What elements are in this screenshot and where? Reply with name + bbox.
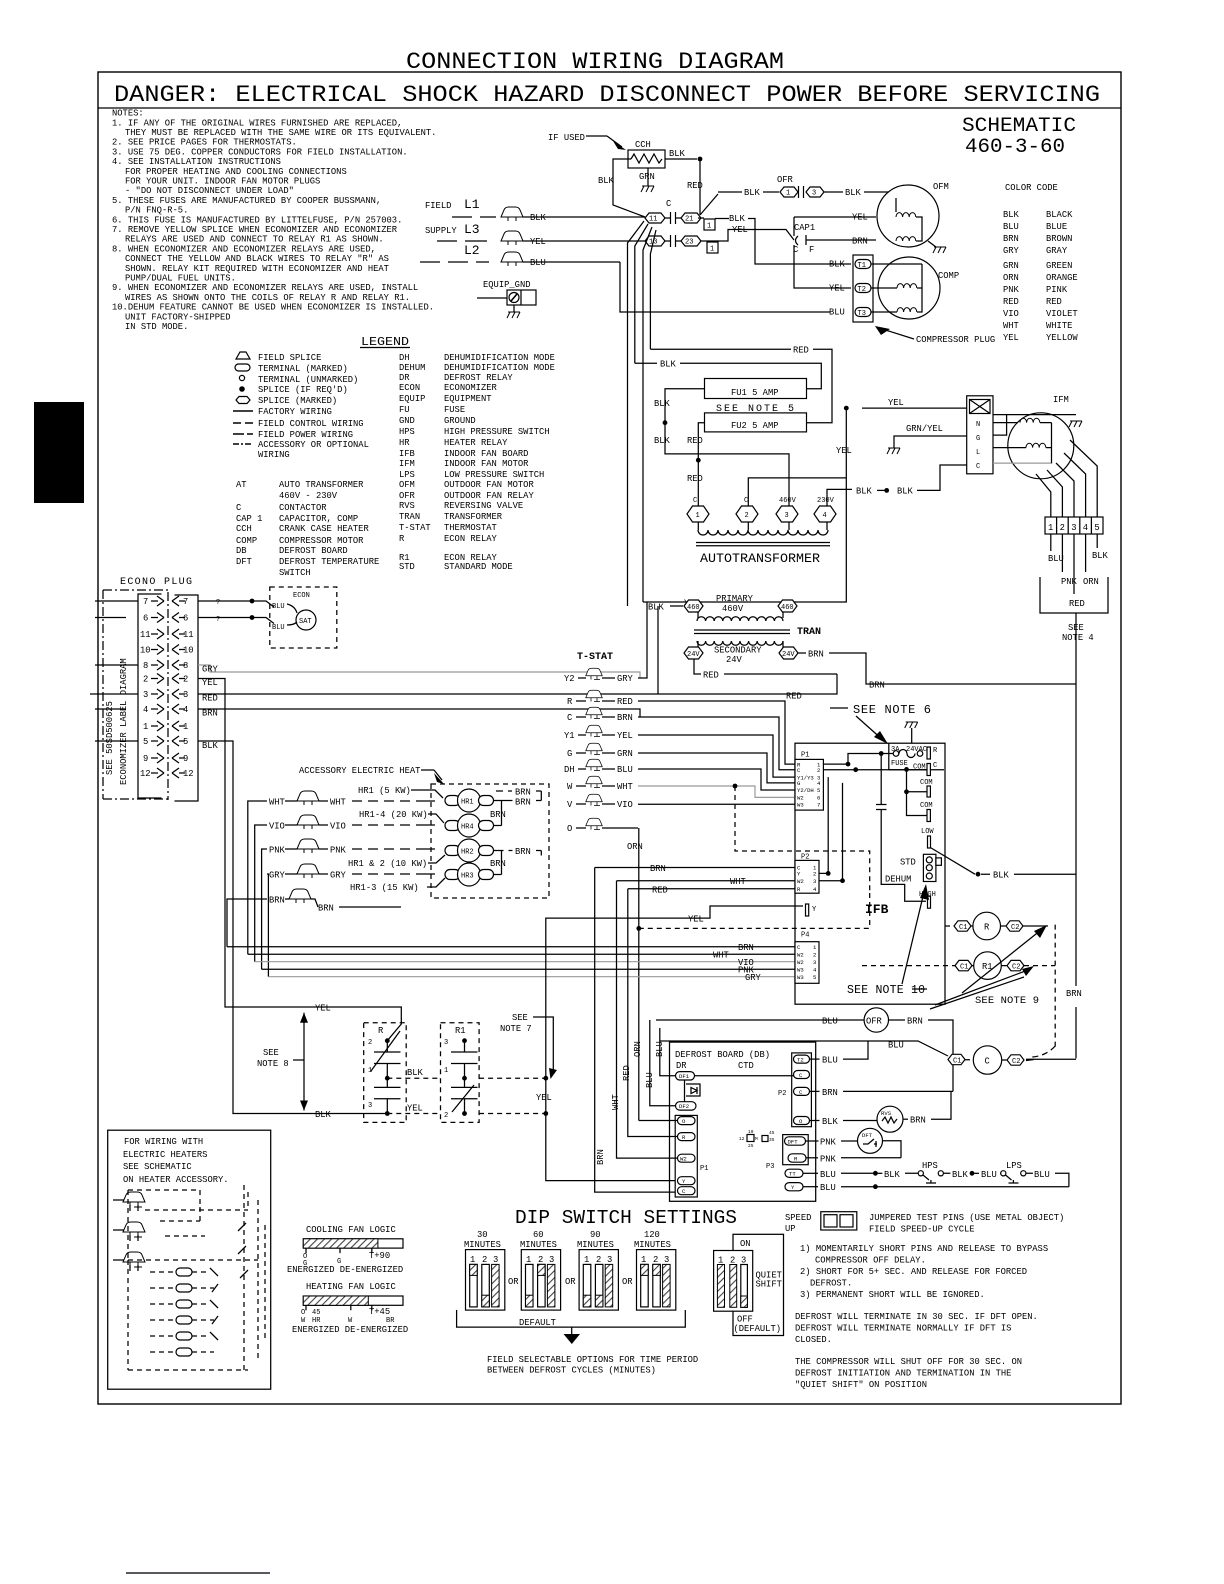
svg-text:1: 1 [786, 190, 790, 198]
svg-text:BLU: BLU [822, 1056, 838, 1066]
svg-text:C: C [933, 762, 937, 770]
svg-text:BLK: BLK [315, 1110, 332, 1120]
svg-text:BRN: BRN [1066, 989, 1082, 999]
wire WHT into P1-3 [617, 881, 678, 1158]
svg-text:T2: T2 [858, 286, 866, 294]
legend symbol: terminal unmarked [239, 375, 244, 380]
svg-text:45: 45 [312, 1309, 320, 1317]
wire CCH right leg BLK [665, 158, 697, 160]
svg-text:1: 1 [710, 246, 714, 254]
legend symbol: factory wiring [233, 410, 253, 412]
svg-text:CRANK CASE HEATER: CRANK CASE HEATER [279, 524, 369, 534]
svg-text:W2: W2 [680, 1156, 687, 1163]
svg-text:5: 5 [813, 974, 816, 981]
svg-text:IFB: IFB [865, 902, 889, 917]
svg-text:4. SEE INSTALLATION INSTRUCTIO: 4. SEE INSTALLATION INSTRUCTIONS [112, 157, 281, 167]
svg-text:AUTO TRANSFORMER: AUTO TRANSFORMER [279, 480, 364, 490]
svg-text:COMPRESSOR MOTOR: COMPRESSOR MOTOR [279, 536, 364, 546]
svg-text:1: 1 [584, 1255, 589, 1265]
svg-text:COMP: COMP [938, 271, 959, 281]
svg-text:PRIMARY: PRIMARY [716, 594, 754, 604]
svg-text:RED: RED [1046, 297, 1062, 307]
svg-text:C: C [666, 199, 671, 209]
svg-text:BLUE: BLUE [1046, 222, 1067, 232]
svg-text:4: 4 [823, 512, 827, 520]
svg-text:MINUTES: MINUTES [464, 1240, 501, 1250]
border frame [98, 72, 1121, 1404]
svg-text:FU: FU [399, 405, 410, 415]
svg-text:W2: W2 [797, 959, 804, 966]
wire WHT tstat to P1 [638, 786, 795, 797]
svg-text:1: 1 [1048, 523, 1053, 533]
instructions [795, 1244, 1048, 1390]
wire YEL up to Y slot [546, 906, 803, 1078]
svg-text:6: 6 [143, 614, 148, 624]
svg-text:2: 2 [596, 1255, 601, 1265]
svg-text:SPEED: SPEED [785, 1213, 811, 1223]
svg-text:11: 11 [649, 216, 657, 224]
t-stat left dashes [576, 678, 586, 828]
wire BLK to RVS [810, 1120, 820, 1122]
svg-text:1: 1 [526, 1255, 531, 1265]
svg-text:GRY: GRY [330, 871, 347, 881]
svg-text:FIELD SPEED-UP CYCLE: FIELD SPEED-UP CYCLE [869, 1225, 975, 1235]
svg-text:BLU: BLU [1003, 222, 1019, 232]
svg-text:R: R [399, 534, 405, 544]
svg-text:OUTDOOR FAN RELAY: OUTDOOR FAN RELAY [444, 491, 534, 501]
svg-text:1: 1 [707, 223, 711, 231]
svg-text:HR3: HR3 [461, 873, 474, 881]
svg-text:Y2/DH: Y2/DH [797, 787, 814, 794]
wire RED from 24V [694, 659, 701, 674]
wire ORN into P1-1 [639, 1120, 678, 1122]
svg-text:BLK: BLK [1003, 210, 1020, 220]
svg-text:ECON RELAY: ECON RELAY [444, 534, 498, 544]
Y slot [806, 904, 809, 916]
svg-text:FUSE: FUSE [444, 405, 465, 415]
svg-text:DEFROST BOARD: DEFROST BOARD [279, 546, 348, 556]
svg-text:DEHUM: DEHUM [885, 875, 911, 885]
wire FU2 left to autotransformer tap 1 [698, 423, 704, 506]
svg-text:460: 460 [781, 604, 794, 612]
TT stadium [785, 1169, 803, 1177]
wire RED tstat to P1 [638, 701, 795, 764]
svg-text:IF USED: IF USED [548, 133, 585, 143]
svg-text:REVERSING VALVE: REVERSING VALVE [444, 501, 523, 511]
IFB fuse 3A 24VAC [905, 722, 918, 728]
svg-text:ON: ON [740, 1239, 751, 1249]
svg-text:ECON: ECON [293, 592, 310, 600]
svg-text:DF2: DF2 [679, 1103, 689, 1110]
svg-text:RED: RED [622, 1065, 632, 1081]
svg-text:Y2: Y2 [564, 674, 575, 684]
svg-text:HEATER RELAY: HEATER RELAY [444, 438, 508, 448]
svg-text:RVS: RVS [399, 501, 415, 511]
terminal 1 square row2 [707, 242, 718, 253]
wire C pin to COM C [823, 769, 927, 771]
svg-text:BLK: BLK [654, 399, 671, 409]
wire ORN from O down [638, 828, 640, 1121]
svg-text:HR: HR [312, 1317, 321, 1325]
svg-text:R: R [567, 697, 573, 707]
svg-text:TT: TT [789, 1171, 796, 1178]
svg-text:T-STAT: T-STAT [399, 523, 431, 533]
svg-text:BLK: BLK [845, 188, 862, 198]
wire YEL riser [643, 408, 846, 602]
svg-text:BRN: BRN [910, 1116, 926, 1126]
wire RED riser [657, 606, 659, 694]
defrost relay diode [685, 1080, 701, 1102]
svg-text:DEFROST RELAY: DEFROST RELAY [444, 373, 513, 383]
svg-text:3: 3 [1071, 523, 1076, 533]
bottom page mark [126, 1572, 270, 1574]
svg-text:T1: T1 [858, 262, 866, 270]
svg-text:3: 3 [813, 959, 816, 966]
svg-text:2: 2 [1060, 523, 1065, 533]
svg-text:24VAC: 24VAC [906, 746, 927, 754]
compressor plug box [853, 255, 873, 322]
svg-text:BRN: BRN [490, 810, 506, 820]
svg-text:ORN: ORN [1003, 273, 1019, 283]
svg-text:DEFROST TEMPERATURE: DEFROST TEMPERATURE [279, 557, 379, 567]
svg-text:BRN: BRN [617, 713, 633, 723]
svg-text:BRN: BRN [269, 896, 285, 906]
svg-text:M: M [755, 1136, 758, 1142]
svg-text:BRN: BRN [869, 681, 885, 691]
t-stat splice bells [586, 668, 603, 679]
svg-text:PNK: PNK [820, 1154, 837, 1164]
svg-text:OFM: OFM [933, 182, 949, 192]
outdoor fan relay OFR coil [656, 1019, 864, 1021]
svg-text:DH: DH [564, 765, 575, 775]
svg-text:DF1: DF1 [679, 1073, 690, 1080]
wire YEL to OFM [794, 217, 876, 236]
svg-text:9: 9 [143, 754, 148, 764]
svg-text:BLK: BLK [654, 436, 671, 446]
svg-text:BRN: BRN [490, 859, 506, 869]
svg-text:BRN: BRN [822, 1088, 838, 1098]
svg-text:SECONDARY: SECONDARY [714, 646, 762, 656]
svg-text:OFR: OFR [777, 175, 794, 185]
svg-text:BLU: BLU [655, 1041, 665, 1057]
svg-text:LPS: LPS [399, 470, 415, 480]
fuse FU2 5 AMP [705, 413, 807, 432]
wire BLU to compressor T3 [620, 262, 830, 312]
plug center dash line [167, 592, 169, 800]
svg-text:FOR WIRING WITH: FOR WIRING WITH [124, 1137, 203, 1147]
wire PNK from DFT pin [806, 1140, 819, 1142]
svg-text:HPS: HPS [922, 1161, 938, 1171]
svg-text:RED: RED [703, 671, 719, 681]
svg-text:SAT: SAT [299, 618, 312, 626]
svg-text:7: 7 [143, 597, 148, 607]
wire RED to FU2 [650, 348, 791, 350]
svg-text:GRY: GRY [202, 665, 219, 675]
svg-text:DEFROST INITIATION AND TERMINA: DEFROST INITIATION AND TERMINATION IN TH… [795, 1369, 1011, 1379]
svg-text:1: 1 [470, 1255, 475, 1265]
IFM leads to connector [1036, 440, 1097, 517]
wire FU1 left to autotransformer 460V tap [665, 389, 789, 506]
svg-text:NOTE 8: NOTE 8 [257, 1059, 289, 1069]
svg-text:COMPRESSOR OFF DELAY.: COMPRESSOR OFF DELAY. [815, 1256, 926, 1266]
svg-text:3: 3 [368, 1102, 372, 1110]
svg-text:BLK: BLK [897, 487, 914, 497]
svg-text:BLU: BLU [272, 603, 285, 611]
svg-text:VIO: VIO [617, 800, 633, 810]
svg-text:TRAN: TRAN [399, 512, 420, 522]
svg-text:L: L [976, 449, 980, 457]
svg-text:CLOSED.: CLOSED. [795, 1335, 832, 1345]
legend symbol: splice if reqd [239, 386, 245, 392]
svg-text:RVS: RVS [881, 1110, 892, 1117]
wire RED econo to IFB region [198, 674, 837, 694]
svg-text:BRN: BRN [852, 237, 868, 247]
svg-text:INDOOR FAN BOARD: INDOOR FAN BOARD [444, 449, 528, 459]
wire YEL below R [387, 1113, 440, 1115]
svg-text:C: C [976, 463, 980, 471]
heater accessory note box [108, 1130, 271, 1389]
wire COM2 [907, 769, 928, 791]
svg-text:1: 1 [718, 1256, 723, 1266]
svg-text:C2: C2 [1012, 1058, 1020, 1066]
svg-text:90: 90 [590, 1230, 601, 1240]
svg-text:DFT: DFT [862, 1132, 873, 1139]
BRN right vertical [1075, 613, 1077, 1058]
svg-text:PINK: PINK [1046, 285, 1068, 295]
dashed DEHUM wire from W [735, 786, 870, 893]
econo plug right column [175, 595, 199, 801]
svg-text:DEFROST.: DEFROST. [810, 1279, 852, 1289]
wire YEL tstat to P1 [638, 735, 795, 777]
svg-text:YEL: YEL [836, 446, 852, 456]
wire YEL into NGLC [862, 407, 967, 409]
svg-text:ENERGIZED DE-ENERGIZED: ENERGIZED DE-ENERGIZED [287, 1265, 403, 1275]
svg-text:7: 7 [817, 802, 820, 809]
svg-text:ECON: ECON [399, 383, 420, 393]
svg-text:C: C [985, 1057, 990, 1067]
plug pin rows [140, 597, 194, 779]
svg-text:C: C [744, 497, 748, 505]
svg-text:W3: W3 [797, 974, 804, 981]
svg-text:C: C [567, 713, 572, 723]
svg-text:3) PERMANENT SHORT WILL BE IGN: 3) PERMANENT SHORT WILL BE IGNORED. [800, 1290, 985, 1300]
svg-text:O: O [567, 824, 572, 834]
svg-text:BLK: BLK [669, 149, 686, 159]
svg-text:FIELD CONTROL WIRING: FIELD CONTROL WIRING [258, 419, 364, 429]
svg-text:PNK: PNK [269, 846, 286, 856]
svg-text:NOTE 4: NOTE 4 [1062, 633, 1094, 643]
svg-text:W2: W2 [797, 951, 804, 958]
svg-text:VIO: VIO [330, 822, 346, 832]
relay R coil box [364, 1023, 407, 1123]
accessory heat dashed box [431, 784, 549, 898]
svg-text:3: 3 [813, 878, 816, 885]
svg-text:OFR: OFR [866, 1017, 883, 1027]
svg-text:NOTES:: NOTES: [112, 109, 144, 119]
svg-text:2) SHORT FOR 5+ SEC. AND RELEA: 2) SHORT FOR 5+ SEC. AND RELEASE FOR FOR… [800, 1267, 1027, 1277]
svg-text:R: R [378, 1026, 384, 1036]
svg-text:2: 2 [368, 1039, 372, 1047]
svg-text:FOR PROPER HEATING AND COOLING: FOR PROPER HEATING AND COOLING CONNECTIO… [125, 167, 347, 177]
svg-text:12: 12 [140, 769, 151, 779]
wire cap to T2 [794, 245, 851, 288]
svg-text:120: 120 [644, 1230, 660, 1240]
legend symbol: field control wiring [233, 422, 253, 424]
svg-text:GND: GND [399, 416, 415, 426]
svg-text:BRN: BRN [738, 943, 754, 953]
svg-text:DEFROST WILL TERMINATE IN 30 S: DEFROST WILL TERMINATE IN 30 SEC. IF DFT… [795, 1312, 1038, 1322]
svg-text:35: 35 [769, 1137, 775, 1143]
legend symbol: field power wiring [233, 433, 253, 435]
svg-text:BLU: BLU [645, 1072, 655, 1088]
svg-text:BRN: BRN [515, 847, 531, 857]
R terminal slot [927, 747, 930, 759]
svg-text:BLK: BLK [1092, 551, 1109, 561]
svg-text:9. WHEN ECONOMIZER AND ECONOMI: 9. WHEN ECONOMIZER AND ECONOMIZER RELAYS… [112, 283, 418, 293]
econo plug dash-dot outline [103, 590, 168, 799]
svg-text:COM: COM [920, 802, 933, 810]
svg-text:BRN: BRN [515, 788, 531, 798]
svg-text:BLK: BLK [530, 213, 547, 223]
svg-text:25: 25 [748, 1143, 754, 1149]
svg-text:- "DO NOT DISCONNECT UNDER LOA: - "DO NOT DISCONNECT UNDER LOAD" [125, 186, 294, 196]
svg-text:2: 2 [813, 871, 816, 878]
svg-text:GRN: GRN [617, 749, 633, 759]
svg-text:HR1: HR1 [461, 799, 474, 807]
svg-text:ACCESSORY OR OPTIONAL: ACCESSORY OR OPTIONAL [258, 440, 369, 450]
svg-text:W: W [567, 782, 573, 792]
heater contact stadiums [150, 1268, 218, 1356]
svg-text:EQUIPMENT: EQUIPMENT [444, 394, 492, 404]
svg-text:10: 10 [140, 646, 151, 656]
svg-text:R1: R1 [455, 1026, 466, 1036]
svg-text:SEE: SEE [512, 1013, 528, 1023]
wire CCH left leg BLK [613, 159, 645, 217]
svg-text:11: 11 [183, 630, 194, 640]
svg-text:G: G [976, 435, 980, 443]
svg-text:GRY: GRY [617, 674, 634, 684]
svg-text:BLU: BLU [530, 258, 546, 268]
svg-text:BRN: BRN [808, 650, 824, 660]
svg-text:AUTOTRANSFORMER: AUTOTRANSFORMER [700, 551, 820, 566]
svg-text:WIRING: WIRING [258, 450, 290, 460]
svg-text:3: 3 [607, 1255, 612, 1265]
wire BRN tstat to P1 [638, 717, 795, 770]
quiet shift block [733, 1234, 784, 1335]
svg-text:C: C [693, 497, 697, 505]
svg-text:SEE NOTE 6: SEE NOTE 6 [853, 703, 931, 717]
svg-text:3: 3 [549, 1255, 554, 1265]
svg-text:P2: P2 [778, 1090, 786, 1098]
svg-text:10: 10 [748, 1129, 754, 1135]
svg-text:HR2: HR2 [461, 849, 474, 857]
svg-text:T+45: T+45 [369, 1307, 390, 1317]
svg-text:Y1: Y1 [564, 731, 575, 741]
indoor fan board IFB outline [795, 743, 945, 1004]
wire YEL row2 to CAP1 [701, 230, 794, 242]
svg-text:PNK: PNK [820, 1138, 837, 1148]
svg-text:HEATING FAN LOGIC: HEATING FAN LOGIC [306, 1282, 396, 1292]
svg-text:DR: DR [676, 1061, 687, 1071]
svg-text:C1: C1 [959, 924, 967, 932]
svg-text:ON HEATER ACCESSORY.: ON HEATER ACCESSORY. [123, 1175, 229, 1185]
SAT sensor [296, 610, 316, 630]
wire BLU tstat to P1 [638, 769, 795, 790]
svg-text:24V: 24V [782, 651, 795, 659]
svg-text:LOW PRESSURE SWITCH: LOW PRESSURE SWITCH [444, 470, 544, 480]
svg-text:FOR YOUR UNIT. INDOOR FAN MOTO: FOR YOUR UNIT. INDOOR FAN MOTOR PLUGS [125, 177, 320, 187]
svg-text:CCH: CCH [236, 524, 252, 534]
svg-text:OR: OR [565, 1277, 576, 1287]
svg-text:PUMP/DUAL FUEL UNITS.: PUMP/DUAL FUEL UNITS. [125, 274, 236, 284]
svg-text:T-STAT: T-STAT [577, 652, 613, 663]
svg-text:WHT: WHT [730, 877, 746, 887]
field splice L2 [501, 252, 523, 266]
svg-text:2: 2 [183, 675, 188, 685]
svg-text:RELAYS ARE USED AND CONNECT TO: RELAYS ARE USED AND CONNECT TO RELAY R1 … [125, 235, 384, 245]
svg-text:2: 2 [538, 1255, 543, 1265]
svg-text:ORN: ORN [627, 842, 643, 852]
svg-text:HIGH PRESSURE SWITCH: HIGH PRESSURE SWITCH [444, 427, 550, 437]
svg-text:BLK: BLK [822, 1117, 839, 1127]
svg-text:MINUTES: MINUTES [520, 1240, 557, 1250]
svg-text:DEHUMIDIFICATION MODE: DEHUMIDIFICATION MODE [444, 363, 555, 373]
svg-text:WHT: WHT [269, 798, 285, 808]
svg-text:RED: RED [786, 692, 802, 702]
svg-text:10: 10 [183, 646, 194, 656]
wire COM3 [907, 792, 928, 816]
relay C row C1 C C2 [948, 1054, 965, 1064]
svg-text:C2: C2 [1011, 924, 1019, 932]
legend symbol: terminal marked [235, 364, 250, 371]
svg-text:JUMPERED TEST PINS (USE METAL: JUMPERED TEST PINS (USE METAL OBJECT) [869, 1213, 1064, 1223]
svg-text:8: 8 [143, 661, 148, 671]
svg-text:"QUIET SHIFT" ON POSITION: "QUIET SHIFT" ON POSITION [795, 1380, 927, 1390]
wires into plug left [90, 601, 138, 741]
svg-text:5: 5 [183, 737, 188, 747]
svg-text:2: 2 [817, 767, 820, 774]
svg-text:HR1-3 (15 KW): HR1-3 (15 KW) [350, 883, 419, 893]
svg-text:5: 5 [817, 787, 820, 794]
dashed wire at 928 [636, 926, 641, 931]
svg-text:3: 3 [493, 1255, 498, 1265]
svg-text:DEFROST BOARD (DB): DEFROST BOARD (DB) [675, 1050, 770, 1060]
svg-text:V: V [567, 800, 573, 810]
svg-text:YEL: YEL [852, 213, 868, 223]
IFM connector leads [1051, 534, 1097, 594]
svg-text:VIO: VIO [269, 822, 285, 832]
svg-text:GRY: GRY [269, 871, 286, 881]
svg-text:THEY MUST BE REPLACED WITH THE: THEY MUST BE REPLACED WITH THE SAME WIRE… [125, 128, 436, 138]
svg-text:HPS: HPS [399, 427, 415, 437]
defrost thermostat DFT [858, 1128, 883, 1153]
svg-text:CCH: CCH [635, 140, 651, 150]
svg-text:1: 1 [696, 512, 700, 520]
wire BLU from T2 [810, 1058, 820, 1060]
svg-text:IFM: IFM [399, 459, 415, 469]
svg-text:DFT: DFT [236, 557, 252, 567]
svg-text:2: 2 [482, 1255, 487, 1265]
svg-text:T2: T2 [797, 1057, 804, 1064]
svg-text:HR1 (5 KW): HR1 (5 KW) [358, 786, 411, 796]
svg-text:30: 30 [477, 1230, 488, 1240]
svg-text:AT: AT [236, 480, 247, 490]
svg-text:HR1-4 (20 KW): HR1-4 (20 KW) [359, 810, 428, 820]
svg-text:BRN: BRN [202, 709, 218, 719]
svg-text:1: 1 [143, 722, 148, 732]
wire RED to P2 [628, 888, 795, 890]
svg-text:CAP1: CAP1 [794, 223, 815, 233]
